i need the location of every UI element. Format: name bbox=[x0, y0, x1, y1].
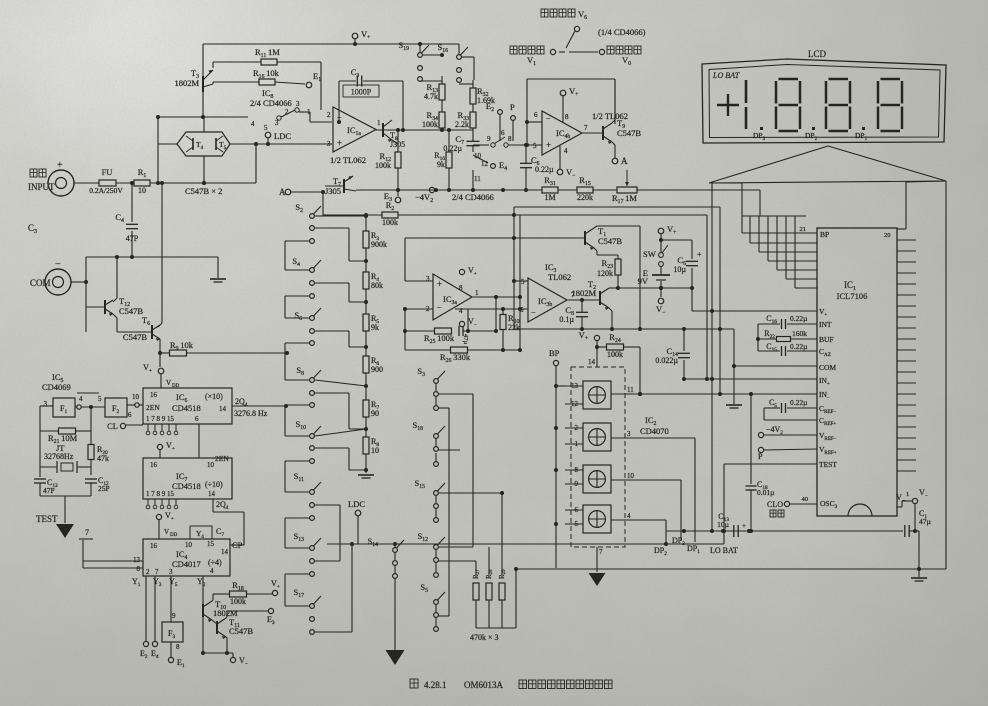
terminal CLO bbox=[784, 501, 789, 506]
wire R33 to C7 bbox=[442, 128, 473, 141]
svg-text:2: 2 bbox=[327, 111, 331, 119]
svg-text:6: 6 bbox=[128, 411, 132, 419]
resistor R4 bbox=[363, 272, 369, 289]
svg-text:10: 10 bbox=[138, 186, 146, 195]
wire vertical x321 bbox=[320, 62, 322, 110]
svg-text:C547B: C547B bbox=[119, 306, 143, 316]
svg-text:1/2 TL062: 1/2 TL062 bbox=[592, 111, 628, 121]
wire bus y117 bbox=[158, 116, 248, 118]
svg-text:A: A bbox=[621, 156, 628, 166]
junction INT bracket bbox=[756, 337, 760, 341]
wire R32-R33 bbox=[472, 104, 474, 112]
svg-text:9k: 9k bbox=[371, 323, 379, 332]
svg-text:DD: DD bbox=[170, 533, 178, 538]
svg-text:J305: J305 bbox=[325, 186, 341, 196]
terminal E2 top bbox=[498, 110, 503, 115]
wire T12 base bbox=[86, 306, 105, 308]
ground ladder bottom bbox=[358, 475, 374, 478]
terminal -4V2 right bbox=[758, 432, 763, 437]
wire S11-S13 feed bbox=[285, 518, 309, 548]
wire R11 right bbox=[277, 61, 321, 63]
wire T8 emitter drop bbox=[392, 140, 398, 144]
junction bottom row bbox=[512, 236, 722, 352]
wire fan bus bbox=[742, 215, 806, 217]
wire VDD IC6 bbox=[160, 374, 162, 388]
resistor R11 bbox=[261, 59, 277, 65]
wire bottom common row bbox=[514, 328, 734, 330]
wire S19 top link bbox=[423, 54, 442, 56]
xor gate pad 1 bbox=[583, 381, 611, 409]
wire out 11 bbox=[611, 393, 612, 395]
IC6 bottom pin stubs bbox=[146, 424, 178, 435]
wire outer bus bbox=[514, 207, 720, 329]
wire vertical x256 bbox=[255, 144, 257, 183]
svg-text:C547B: C547B bbox=[229, 626, 253, 636]
wire V- IC4b stub bbox=[559, 146, 561, 169]
LCD inner frame bbox=[709, 65, 940, 138]
svg-text:CD4069: CD4069 bbox=[42, 382, 71, 392]
svg-text:10: 10 bbox=[132, 393, 140, 401]
svg-text:−: − bbox=[55, 259, 61, 270]
svg-text:10µ: 10µ bbox=[673, 265, 686, 274]
svg-text:0.2A/250V: 0.2A/250V bbox=[89, 186, 123, 195]
gate F1 bbox=[53, 398, 75, 417]
junction C18 bottom bbox=[749, 529, 753, 533]
svg-text:1802M: 1802M bbox=[571, 288, 596, 298]
capacitor C13b 10u bbox=[734, 525, 738, 537]
wire R27 bottom bbox=[475, 600, 477, 628]
resistor R32 bbox=[470, 88, 476, 104]
svg-text:3: 3 bbox=[44, 400, 48, 408]
junction x502 top bbox=[500, 491, 504, 495]
wire lcd bus line 2 bbox=[759, 216, 817, 252]
wire T9 emitter to A bbox=[612, 142, 615, 158]
switch IC8 contacts bbox=[277, 108, 299, 120]
wire batt mid bbox=[660, 266, 662, 274]
wire Y2 down bbox=[202, 576, 204, 653]
IC U1 ICL7106 box bbox=[817, 228, 897, 516]
xor gate pad 2 bbox=[583, 423, 611, 451]
ground TEST triangle bbox=[56, 524, 74, 538]
terminal CL bbox=[120, 423, 125, 428]
terminal V- bottom bbox=[230, 657, 235, 662]
svg-text:1 7 8 9 15: 1 7 8 9 15 bbox=[146, 415, 175, 423]
terminal V- IC4b bbox=[557, 169, 563, 175]
svg-text:14: 14 bbox=[588, 358, 596, 366]
wire S16 to R32 bbox=[459, 80, 473, 88]
junction A rail bbox=[321, 190, 325, 194]
wire Y3 down bbox=[154, 576, 156, 641]
svg-text:14: 14 bbox=[219, 405, 227, 413]
svg-text:900k: 900k bbox=[371, 240, 387, 249]
label kongzhi xinhao bbox=[541, 9, 575, 17]
wire S6-S8 feed bbox=[285, 343, 309, 380]
IC4 CD4017 box bbox=[143, 539, 230, 576]
wire R16 left bbox=[213, 82, 259, 84]
wire BP vertical bbox=[555, 366, 557, 568]
wire CAZ row bbox=[758, 350, 817, 352]
IC6 CD4518 box bbox=[143, 388, 232, 424]
junctions bus117 bbox=[156, 115, 206, 185]
svg-text:CL: CL bbox=[107, 421, 118, 431]
junction C14 bottom bbox=[682, 377, 686, 381]
wire inner right vertical bbox=[706, 215, 708, 379]
wire IC3b pin6 row bbox=[455, 308, 528, 310]
svg-text:16: 16 bbox=[150, 542, 158, 550]
svg-text:FU: FU bbox=[102, 167, 113, 177]
svg-text:(÷10): (÷10) bbox=[205, 480, 223, 489]
svg-text:6: 6 bbox=[534, 111, 538, 119]
wire T11 emitter bbox=[226, 637, 227, 653]
capacitor C15 bbox=[782, 346, 786, 356]
transistor T7 bbox=[344, 176, 356, 193]
capacitor C13 xtal bbox=[34, 479, 46, 483]
resistor R10 9k bbox=[446, 152, 452, 168]
wire S16 stub bbox=[458, 44, 460, 54]
svg-text:5: 5 bbox=[533, 142, 537, 150]
svg-text:3: 3 bbox=[169, 568, 173, 576]
wire VDD IC7 bbox=[159, 450, 161, 458]
wire bottom link bbox=[203, 652, 233, 654]
svg-text:100k: 100k bbox=[375, 161, 391, 170]
wire C6b leads bbox=[525, 145, 527, 190]
arrow R17 wiper bbox=[625, 170, 629, 186]
wire LDC stub bbox=[267, 138, 269, 144]
ground common bbox=[210, 279, 226, 282]
wire pin 13 stub bbox=[565, 385, 583, 387]
wire pin 5 stub bbox=[565, 523, 583, 525]
svg-text:CD4518: CD4518 bbox=[172, 403, 201, 413]
junction hexagon right bbox=[254, 142, 270, 146]
wire S14 segs bbox=[394, 544, 396, 650]
wire CL stub bbox=[126, 424, 143, 426]
wire IC6 pin6 down bbox=[198, 424, 200, 458]
capacitor C18 bbox=[746, 486, 757, 490]
wire V+ IC4b stub bbox=[562, 96, 564, 122]
svg-text:LO BAT: LO BAT bbox=[710, 546, 738, 555]
wire xtal bottom rail bbox=[40, 483, 91, 496]
wire V- drop bbox=[914, 504, 916, 531]
wire S10-S11 feed bbox=[285, 461, 309, 492]
junction TEST vert bbox=[722, 529, 726, 533]
switch S19 bbox=[418, 45, 429, 81]
resistor R34 bbox=[439, 112, 445, 128]
capacitor C7 bbox=[467, 141, 480, 145]
wire R17 right bbox=[637, 189, 760, 191]
svg-text:4: 4 bbox=[210, 567, 214, 575]
wire lcd bus line 6 bbox=[795, 216, 817, 288]
wire x468 vertical bbox=[467, 309, 469, 331]
svg-text:3276.8 Hz: 3276.8 Hz bbox=[234, 409, 268, 418]
op-amp IC4b bbox=[542, 111, 582, 155]
svg-text:10: 10 bbox=[185, 541, 193, 549]
resistor R12 bbox=[395, 152, 401, 168]
svg-text:2.2k: 2.2k bbox=[455, 120, 469, 129]
wire Y5 down bbox=[170, 576, 172, 622]
junction top bus bbox=[353, 42, 422, 46]
resistor R18 bbox=[230, 591, 247, 597]
svg-text:47P: 47P bbox=[43, 486, 55, 495]
wire control to out bbox=[569, 51, 598, 53]
wire T2 emitter bbox=[609, 308, 612, 329]
svg-text:(×10): (×10) bbox=[205, 392, 223, 401]
switch S5 bbox=[434, 592, 445, 631]
switch S16 bbox=[457, 47, 468, 82]
svg-text:3: 3 bbox=[627, 430, 631, 438]
switch pins 9 8 bbox=[491, 137, 508, 147]
svg-text:7: 7 bbox=[85, 528, 89, 537]
wire P drop bbox=[512, 121, 514, 141]
resistor R25 bbox=[435, 328, 452, 334]
wire S18 tap bbox=[438, 449, 460, 451]
junction 470k bus bbox=[514, 567, 518, 571]
wire S15 top tap bbox=[438, 492, 502, 494]
wire C4 bottom lead bbox=[131, 231, 133, 257]
svg-text:0.1µ: 0.1µ bbox=[559, 315, 574, 324]
wire pin 2 stub bbox=[565, 427, 583, 429]
capacitor C8 bbox=[576, 312, 588, 316]
switch S15 bbox=[434, 483, 445, 522]
svg-text:6: 6 bbox=[520, 306, 524, 314]
svg-text:C547B: C547B bbox=[123, 332, 147, 342]
svg-text:+: + bbox=[546, 140, 551, 150]
wire S19 stub bbox=[419, 44, 421, 52]
terminal V+ IC3a bbox=[459, 269, 464, 274]
wire hexagon right to opamp bbox=[230, 143, 332, 145]
IC7 bottom pin stubs bbox=[146, 499, 178, 509]
svg-text:2: 2 bbox=[146, 568, 150, 576]
svg-text:6: 6 bbox=[501, 129, 505, 137]
wire C8 leads bbox=[581, 300, 583, 329]
switch S3 bbox=[434, 371, 445, 410]
junction IN+ row bbox=[705, 377, 714, 381]
wire BP tap1 bbox=[556, 385, 565, 387]
input jack INPUT bbox=[48, 160, 74, 196]
svg-text:2/4 CD4066: 2/4 CD4066 bbox=[452, 192, 494, 202]
svg-text:100k: 100k bbox=[607, 350, 623, 359]
LCD digit 8 third bbox=[878, 79, 902, 131]
caption tu bbox=[410, 679, 418, 688]
wire A to rail bbox=[291, 191, 323, 193]
wire R18 right bbox=[247, 593, 272, 595]
svg-text:LO BAT: LO BAT bbox=[712, 71, 740, 80]
wire C18 bottom bbox=[750, 490, 752, 531]
junction R24 bbox=[595, 345, 642, 396]
svg-text:−: − bbox=[531, 308, 536, 317]
svg-text:SW: SW bbox=[643, 249, 656, 259]
terminal E3 bottom bbox=[268, 608, 273, 613]
wire R11 left bbox=[213, 62, 261, 68]
wire R27 top bbox=[475, 561, 477, 575]
wire F2 out bbox=[127, 404, 135, 406]
junction S19 link bbox=[440, 53, 444, 57]
crystal JT bbox=[57, 461, 77, 473]
wire Y1 down bbox=[145, 576, 147, 641]
svg-text:V: V bbox=[166, 379, 171, 387]
svg-text:220k: 220k bbox=[577, 193, 593, 202]
ground CD4070 bbox=[589, 573, 606, 586]
junctions common bbox=[84, 255, 134, 284]
resistor R26 bbox=[451, 347, 468, 353]
wire bottom bus bbox=[516, 568, 946, 570]
junction DP bus bbox=[682, 529, 917, 533]
wire R21 leads bbox=[40, 406, 91, 477]
junction R26 right bbox=[501, 348, 505, 352]
svg-text:8: 8 bbox=[508, 135, 512, 143]
svg-text:5: 5 bbox=[264, 124, 268, 132]
svg-text:+: + bbox=[742, 522, 746, 530]
wire roof right diagonal bbox=[828, 146, 946, 181]
resistor R31 bbox=[542, 187, 558, 193]
wire C1 right to gnd bbox=[909, 531, 919, 577]
svg-text:4: 4 bbox=[79, 395, 83, 403]
junction IC6 out rail bbox=[284, 404, 288, 408]
wire T11 collector to E3 bbox=[226, 611, 268, 618]
terminal E2 bottom bbox=[143, 641, 148, 646]
wire IC3a pin2 bbox=[405, 309, 433, 350]
terminal E1 top bbox=[306, 82, 312, 88]
resistor R16 bbox=[259, 79, 275, 85]
wire batt bottom bbox=[660, 281, 662, 297]
junctions C3 loop bbox=[337, 120, 405, 132]
resistor R5 bbox=[363, 314, 369, 331]
svg-text:10µ: 10µ bbox=[717, 520, 730, 529]
wire V+ to IC1 bbox=[692, 288, 817, 311]
potentiometer R17 bbox=[617, 187, 637, 193]
junction R9 rail bbox=[158, 351, 289, 355]
terminal P top bbox=[511, 116, 516, 121]
svg-text:100k: 100k bbox=[230, 597, 246, 606]
svg-text:5: 5 bbox=[521, 278, 525, 286]
terminal pin4 bbox=[77, 405, 81, 409]
wire R12 top bbox=[397, 130, 399, 152]
wire inner bus bbox=[520, 215, 707, 350]
svg-text:14: 14 bbox=[221, 548, 229, 556]
resistor R27 bbox=[473, 583, 479, 600]
wire S10 mid stair bbox=[315, 448, 366, 470]
wire IC4b out bbox=[582, 132, 603, 134]
svg-text:4.28.1: 4.28.1 bbox=[424, 680, 447, 690]
wire C3 loop bbox=[339, 81, 403, 130]
svg-text:2: 2 bbox=[285, 108, 289, 116]
terminal pin10 bbox=[135, 403, 139, 407]
wire R29 bottom bbox=[501, 600, 503, 628]
wire V+ to R24 bbox=[597, 341, 606, 347]
wire A drop to S2 bbox=[315, 192, 323, 216]
resistor R21 bbox=[59, 428, 76, 434]
terminal Vo bbox=[599, 49, 604, 54]
resistor R3 bbox=[363, 231, 369, 248]
resistor R15 bbox=[577, 187, 593, 193]
wire under CD4069 bbox=[77, 392, 99, 394]
wire V+ drop from R9 bbox=[159, 353, 161, 367]
svg-text:90: 90 bbox=[371, 409, 379, 418]
wire T1 collector loop bbox=[594, 226, 640, 329]
wire pin 12 stub bbox=[565, 403, 583, 405]
wire S10 top tap bbox=[315, 429, 366, 436]
terminal A left bbox=[285, 189, 291, 195]
wire R20 leads bbox=[502, 309, 504, 350]
op-amp IC3a bbox=[433, 274, 472, 320]
terminal V+ R24 bbox=[594, 335, 599, 340]
svg-text:22k: 22k bbox=[508, 323, 520, 332]
LCD DP dots bbox=[760, 127, 763, 130]
wire IC6 out bbox=[232, 405, 286, 407]
wire right rail bbox=[945, 181, 947, 569]
svg-text:LCD: LCD bbox=[808, 49, 827, 59]
svg-text:BP: BP bbox=[549, 348, 560, 358]
transistor T3 bbox=[203, 70, 213, 92]
fuse FU bbox=[99, 180, 116, 186]
svg-text:1802M: 1802M bbox=[174, 78, 199, 88]
wire LDC down bbox=[357, 516, 359, 544]
wire lcd bus line 3 bbox=[768, 216, 817, 261]
svg-text:CD4017: CD4017 bbox=[172, 559, 201, 569]
terminal V- battery bbox=[658, 298, 664, 304]
junction R12 top bbox=[396, 128, 400, 132]
wire S3 col segs bbox=[435, 384, 437, 626]
wire R16 right to E1 bbox=[275, 82, 305, 84]
wire fuse to R1 bbox=[116, 182, 134, 184]
svg-text:0.22µ: 0.22µ bbox=[790, 314, 808, 323]
junction R34 out bbox=[440, 128, 444, 132]
wire T2 collector bbox=[609, 287, 618, 289]
wire S13-S17 feed bbox=[285, 574, 309, 606]
wire lobat row bbox=[327, 543, 724, 545]
svg-text:9: 9 bbox=[172, 612, 176, 620]
terminal LDC bottom bbox=[355, 510, 361, 516]
svg-text:8: 8 bbox=[459, 284, 463, 292]
wire IC4b minus input bbox=[527, 121, 542, 123]
wire T12 collector bbox=[113, 257, 117, 302]
junction C8 top bbox=[580, 298, 584, 302]
wire S8 top tap bbox=[315, 380, 366, 386]
svg-text:0.022µ: 0.022µ bbox=[655, 356, 678, 365]
svg-text:10: 10 bbox=[627, 472, 635, 480]
svg-text:7: 7 bbox=[155, 568, 159, 576]
terminal V+ battery bbox=[658, 228, 664, 234]
transistor T12 bbox=[105, 300, 113, 316]
svg-text:47µ: 47µ bbox=[462, 334, 469, 345]
junction battery bbox=[659, 238, 663, 290]
IC U1 right pin stubs bbox=[897, 240, 916, 471]
wire S4-S6 feed bbox=[285, 296, 309, 318]
switch S13 bbox=[310, 538, 321, 576]
wire DP3 vertical bbox=[680, 480, 682, 541]
wire COM to node bbox=[71, 281, 86, 283]
resistor R22 bbox=[777, 337, 791, 342]
wire pin 6 stub bbox=[565, 509, 583, 511]
svg-text:11: 11 bbox=[474, 175, 481, 183]
switch S6 bbox=[310, 308, 321, 345]
wire TEST row bbox=[724, 463, 817, 465]
wire T3 collector top bbox=[202, 44, 204, 77]
wire T10 collector bbox=[212, 594, 229, 601]
terminal V+ top bbox=[352, 33, 358, 39]
svg-text:7: 7 bbox=[599, 548, 603, 556]
svg-text:3: 3 bbox=[296, 100, 300, 108]
svg-text:+: + bbox=[57, 160, 63, 171]
ground S14 bbox=[386, 650, 405, 665]
svg-text:+: + bbox=[337, 138, 342, 148]
resistor R33 bbox=[470, 112, 476, 128]
svg-text:20: 20 bbox=[884, 232, 891, 239]
wire batt top bbox=[660, 234, 662, 253]
wire T3 base down bbox=[202, 92, 204, 117]
terminal V+ IC7 bbox=[157, 444, 162, 449]
svg-text:470k × 3: 470k × 3 bbox=[470, 633, 499, 642]
wire S2 top tap bbox=[315, 215, 366, 217]
